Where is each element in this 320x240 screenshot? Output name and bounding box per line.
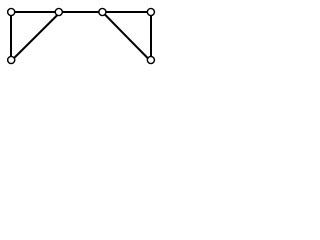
node F bottom-right [147, 56, 154, 63]
wire left edge A-E [10, 12, 12, 60]
wire diagonal C-F [102, 12, 149, 60]
node E bottom-left [8, 56, 15, 63]
wire diagonal E-B [12, 12, 60, 60]
node C top-middle-right [99, 8, 106, 15]
node D top-right [147, 8, 154, 15]
node B top-middle-left [55, 8, 62, 15]
wire top edge A-D [11, 11, 151, 13]
node A top-left [8, 8, 15, 15]
wire right edge D-F [150, 12, 152, 60]
